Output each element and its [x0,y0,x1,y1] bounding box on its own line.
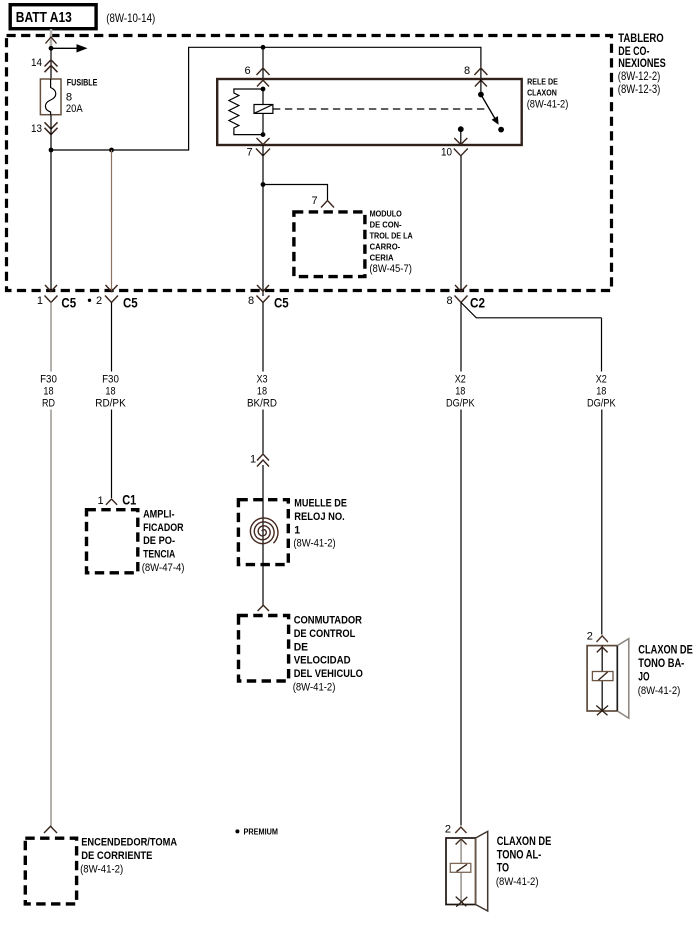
relay coil wire [262,89,264,135]
switch pivot dot [478,92,484,98]
conmutador dashed box [239,616,289,682]
svg-text:1: 1 [294,524,300,536]
svg-text:18: 18 [596,386,606,398]
svg-text:DG/PK: DG/PK [446,398,475,410]
svg-text:DG/PK: DG/PK [587,398,616,410]
connector 8 C5 [248,285,289,310]
rele de claxon label [527,78,569,111]
pin 7 chevrons [247,138,271,158]
svg-text:X3: X3 [256,374,267,386]
svg-text:8: 8 [66,91,72,103]
svg-text:C5: C5 [61,295,76,310]
wire X2 DG/PK right lower [601,410,603,635]
svg-text:DE CORRIENTE: DE CORRIENTE [81,850,152,862]
wire F30 RD upper [50,303,52,372]
svg-text:(8W-12-2): (8W-12-2) [618,70,661,83]
svg-text:TONO AL-: TONO AL- [497,847,542,861]
pin 10 contact dot [458,126,464,132]
muelle de reloj dashed box [238,500,288,565]
clockspring pin 1 chevron [250,454,269,467]
svg-text:AMPLI-: AMPLI- [143,508,175,520]
svg-text:14: 14 [31,57,42,69]
svg-text:7: 7 [247,146,253,158]
connector 1 C1 [98,493,137,508]
svg-text:TO: TO [497,861,509,875]
encendedor dashed box [25,838,76,904]
pin 8 [464,65,487,87]
pin 13 [31,122,58,135]
svg-text:1: 1 [98,495,104,507]
switch contact dot [498,127,504,133]
svg-text:TENCIA: TENCIA [143,549,175,561]
svg-text:(8W-41-2): (8W-41-2) [638,685,681,697]
svg-text:18: 18 [43,386,53,398]
wire X2 DG/PK right upper [601,318,603,372]
svg-text:6: 6 [245,65,251,77]
claxon de tono alto horn [446,831,488,911]
svg-text:(8W-12-3): (8W-12-3) [618,83,661,96]
wire X3 BK/RD lower [262,410,264,454]
label X2 18 DG/PK right [587,374,616,410]
label X2 18 DG/PK left [446,374,475,410]
branch wire to low horn [461,303,602,318]
svg-text:(8W-41-2): (8W-41-2) [80,863,123,875]
wire F30 RD/PK upper [111,303,113,372]
svg-text:TABLERO: TABLERO [618,32,663,45]
switch arm [481,95,499,125]
svg-text:(8W-41-2): (8W-41-2) [293,538,335,550]
svg-text:1: 1 [37,295,43,307]
svg-text:18: 18 [257,386,267,398]
svg-text:7: 7 [312,195,318,207]
svg-text:8: 8 [447,295,453,307]
wire F30 RD/PK lower [111,410,113,499]
wire F30 RD lower [50,410,52,827]
junction to body module [261,182,266,187]
wire X2 DG/PK left lower [460,410,462,826]
svg-text:RD: RD [42,398,55,410]
high horn pin 2 chevron [445,823,467,835]
claxon de tono alto label [496,834,551,888]
svg-text:DE: DE [294,641,308,653]
wire battery feed (gray) [50,29,53,48]
pin 10 chevrons [441,138,468,158]
junction dot B [109,148,114,153]
tablero de conexiones dashed box [7,36,612,291]
junction coil top [261,87,266,92]
modulo de control dashed box [294,212,365,277]
svg-text:18: 18 [455,386,465,398]
chevron into tablero [46,37,57,44]
wire fuse to junction [50,115,52,150]
svg-text:(8W-41-2): (8W-41-2) [527,98,569,110]
svg-text:18: 18 [105,386,115,398]
svg-text:1: 1 [250,454,256,466]
junction dot A [49,148,54,153]
svg-text:DEL VEHICULO: DEL VEHICULO [294,668,363,680]
claxon de tono bajo label [638,642,693,697]
relay coil resistor [229,89,263,135]
label X3 18 BK/RD [247,374,277,410]
encendedor pin chevron [44,826,57,833]
svg-text:JO: JO [638,670,649,684]
tablero de conexiones label [618,32,666,96]
svg-text:C2: C2 [470,295,485,310]
svg-text:2: 2 [96,295,102,307]
svg-text:(8W-45-7): (8W-45-7) [369,263,412,275]
junction coil bottom [261,132,266,137]
svg-text:CARRO-: CARRO- [370,241,401,251]
svg-text:CLAXON: CLAXON [527,88,557,97]
relay coil symbol [254,105,273,114]
clockspring spiral [250,518,278,544]
svg-text:ENCENDEDOR/TOMA: ENCENDEDOR/TOMA [81,837,177,849]
pin 14 [31,57,58,72]
relay box (rele de claxon) [217,79,522,145]
conmutador pin chevron [258,605,269,611]
svg-text:FUSIBLE: FUSIBLE [67,77,98,87]
junction battery node [49,46,54,51]
fuse labels [66,77,98,115]
connector 1 C5 [37,150,77,310]
svg-text:CLAXON DE: CLAXON DE [638,642,693,656]
module pin 7 [312,195,335,208]
amplificador dashed box [87,510,138,573]
svg-text:20A: 20A [66,103,83,115]
svg-text:MODULO: MODULO [370,209,403,219]
label F30 18 RD [40,374,57,410]
fuse F8 20A [40,79,61,115]
svg-text:FICADOR: FICADOR [143,522,184,534]
wire to relay pin 6 [262,47,264,79]
svg-text:F30: F30 [40,374,57,386]
muelle de reloj label [293,497,347,549]
wire pin 7 to connector C5 [262,145,264,296]
junction dot pin6 feed [261,45,266,50]
svg-text:DE CO-: DE CO- [618,45,649,58]
svg-text:BK/RD: BK/RD [247,398,277,410]
svg-text:CERIA: CERIA [370,252,394,262]
svg-text:2: 2 [587,631,593,643]
svg-text:8: 8 [248,295,254,307]
premium note [235,826,278,836]
connector 2 C5 [88,150,138,310]
label F30 18 RD/PK [95,374,126,410]
svg-text:13: 13 [31,123,42,135]
wire X3 BK/RD upper [262,303,264,372]
relay actuator dashed link [273,108,487,110]
svg-text:DE CONTROL: DE CONTROL [294,628,356,640]
conmutador label [293,614,363,693]
bus wire to relay [51,47,481,150]
low horn pin 2 chevron [587,631,608,643]
wire clockspring to switch [262,564,264,605]
svg-text:RD/PK: RD/PK [95,398,126,410]
svg-text:PREMIUM: PREMIUM [244,826,279,836]
encendedor label [80,837,177,876]
wire pin 10 [460,129,462,145]
svg-text:C5: C5 [123,295,138,310]
wire into clockspring [262,465,264,564]
svg-text:X2: X2 [596,374,607,386]
svg-text:(8W-47-4): (8W-47-4) [142,562,185,574]
svg-text:VELOCIDAD: VELOCIDAD [294,655,351,667]
arrow to other circuits [51,44,88,52]
svg-text:C1: C1 [122,493,136,508]
svg-text:10: 10 [441,146,452,158]
svg-text:DE CON-: DE CON- [370,220,402,230]
wire X2 DG/PK left upper [460,303,462,372]
modulo de control label [369,209,412,276]
claxon de tono bajo horn [587,639,629,719]
svg-text:MUELLE DE: MUELLE DE [294,497,347,509]
svg-text:CONMUTADOR: CONMUTADOR [294,614,363,626]
svg-text:F30: F30 [102,374,119,386]
branch wire to body module [263,185,328,201]
svg-text:DE PO-: DE PO- [143,535,175,547]
svg-text:TONO BA-: TONO BA- [638,656,684,670]
node BATT A13 [10,5,96,29]
amplificador label [142,508,185,574]
switch common wire [480,79,482,95]
svg-text:2: 2 [445,823,451,835]
svg-text:BATT A13: BATT A13 [16,9,72,26]
svg-text:RELE DE: RELE DE [527,78,558,87]
svg-text:(8W-41-2): (8W-41-2) [293,682,336,694]
connector 8 C2 [447,156,486,310]
svg-text:(8W-41-2): (8W-41-2) [496,876,539,888]
svg-text:8: 8 [464,65,470,77]
svg-text:RELOJ NO.: RELOJ NO. [294,511,345,523]
svg-text:NEXIONES: NEXIONES [618,57,666,70]
svg-text:TROL DE LA: TROL DE LA [370,230,413,240]
svg-text:CLAXON DE: CLAXON DE [497,834,552,848]
svg-text:X2: X2 [455,374,466,386]
svg-text:(8W-10-14): (8W-10-14) [106,11,155,25]
wire battery to fuse [50,48,52,79]
svg-text:C5: C5 [274,295,289,310]
pin 6 [245,65,270,87]
